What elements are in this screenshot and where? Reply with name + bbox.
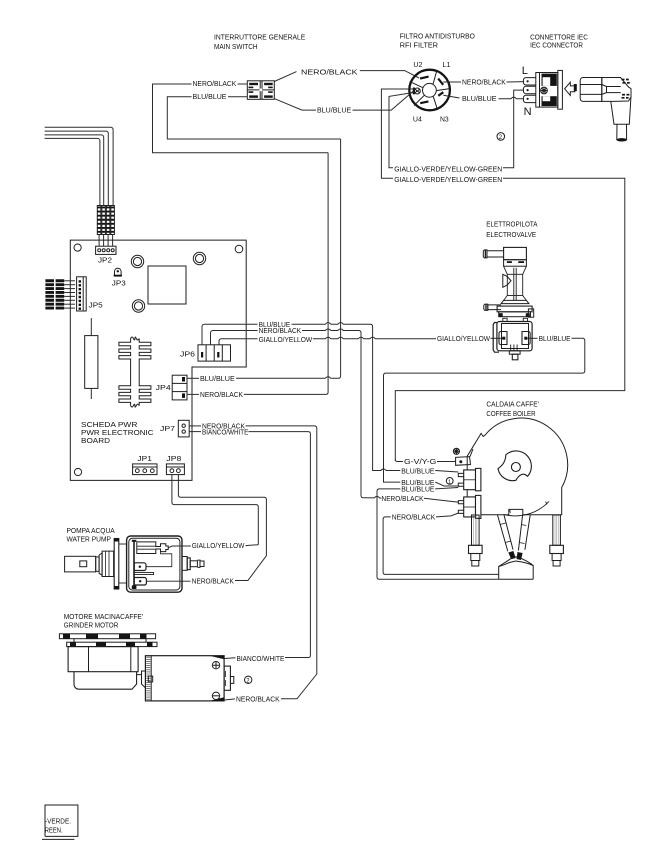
pump M1 left shaft bbox=[65, 539, 127, 590]
RFI filter spokes bbox=[410, 71, 450, 109]
wire NERO/BLACK grinder stub bbox=[225, 699, 236, 700]
svg-text:-VERDE.: -VERDE. bbox=[45, 818, 71, 826]
boiler B1 body bbox=[467, 418, 567, 516]
PCB via ring 1 bbox=[131, 255, 143, 267]
svg-text:GIALLO-VERDE/YELLOW-GREEN: GIALLO-VERDE/YELLOW-GREEN bbox=[394, 165, 502, 173]
boiler inner cam bbox=[498, 451, 531, 481]
wire BLU/BLUE switch left lead bbox=[228, 96, 247, 98]
wire bundle 4 wires from left edge to JP2 bbox=[45, 127, 114, 205]
svg-text:NERO/BLACK: NERO/BLACK bbox=[192, 578, 234, 586]
arrow pointing to IEC inlet bbox=[565, 82, 575, 95]
wire GIALLO/YELLOW pump stubs bbox=[168, 545, 258, 548]
PCB mounting hole top-right bbox=[235, 245, 243, 253]
electrovalve EV1 bbox=[483, 247, 533, 359]
JP5 wires to connector bbox=[64, 281, 75, 308]
IC U2 big square bbox=[148, 266, 186, 304]
wire BLU/BLUE boiler1 right stub bbox=[435, 471, 458, 473]
wire BLU/BLUE from switch down to PCB net (left route) bbox=[167, 97, 340, 139]
svg-text:PWR ELECTRONIC: PWR ELECTRONIC bbox=[81, 429, 154, 437]
PCB via ring 2 bbox=[193, 252, 205, 264]
wire NERO/BLACK JP6 to boiler (via label) bbox=[211, 329, 382, 498]
pump coil core bar bbox=[133, 541, 135, 589]
electrovalve base flange bbox=[501, 300, 529, 303]
boiler group head mound bbox=[499, 557, 534, 580]
svg-text:N3: N3 bbox=[440, 116, 449, 124]
note symbol circled-2 grinder bbox=[245, 676, 252, 684]
grinder minus symbol bbox=[212, 692, 219, 699]
wire ground GIALLO-VERDE line2: filter hub to boiler route bbox=[381, 89, 624, 461]
title RFI filter bbox=[400, 32, 476, 49]
svg-text:N: N bbox=[524, 106, 532, 118]
electrovalve collar bbox=[497, 306, 532, 312]
pump mid thin bar bbox=[134, 573, 153, 575]
wire BIANCO/WHITE JP7 down to grinder bbox=[189, 432, 310, 658]
grinder plus symbol bbox=[212, 662, 219, 669]
title electrovalve bbox=[486, 220, 537, 238]
JP5 crimp stack bbox=[45, 279, 64, 309]
wire NERO/BLACK boiler1 right stub bbox=[424, 498, 459, 502]
boiler heater terminal block lower bbox=[458, 495, 481, 518]
svg-text:BLU/BLUE: BLU/BLUE bbox=[200, 375, 235, 383]
svg-text:JP2: JP2 bbox=[98, 256, 112, 264]
wire NERO/BLACK filter to IEC L pin bbox=[443, 81, 524, 83]
connector JP5 bbox=[77, 277, 87, 311]
wire BLU/BLUE boiler3 left route down to group head bbox=[377, 488, 499, 580]
capacitor C1 tall rect bbox=[85, 318, 98, 399]
svg-text:JP3: JP3 bbox=[112, 280, 126, 288]
electrovalve coil top tabs bbox=[503, 318, 507, 321]
svg-text:INTERRUTTORE GENERALE: INTERRUTTORE GENERALE bbox=[214, 34, 306, 42]
svg-text:COFFEE BOILER: COFFEE BOILER bbox=[486, 410, 535, 418]
wire NERO/BLACK switch left lead bbox=[238, 83, 248, 85]
title grinder motor bbox=[64, 613, 143, 630]
pump inner connector top (giallo terminal) bbox=[137, 542, 168, 554]
wire BLU/BLUE switch to filter lower bbox=[274, 91, 413, 110]
boiler right stud bolt bbox=[550, 515, 564, 566]
svg-text:BLU/BLUE: BLU/BLUE bbox=[401, 467, 434, 475]
svg-text:GIALLO-VERDE/YELLOW-GREEN: GIALLO-VERDE/YELLOW-GREEN bbox=[394, 176, 502, 184]
svg-text:JP4: JP4 bbox=[156, 384, 171, 392]
wire NERO/BLACK JP7 down to grinder bbox=[189, 426, 317, 699]
svg-text:BIANCO/WHITE: BIANCO/WHITE bbox=[237, 655, 285, 663]
svg-text:BLU/BLUE: BLU/BLUE bbox=[193, 93, 227, 101]
boiler heater terminal block upper bbox=[458, 468, 481, 490]
electrovalve stem bbox=[514, 268, 516, 301]
wire GIALLO/YELLOW JP6 to electrovalve (via label) bbox=[219, 337, 436, 345]
svg-text:BLU/BLUE: BLU/BLUE bbox=[462, 95, 497, 103]
wire NERO/BLACK from switch down to PCB net (left route) bbox=[153, 84, 329, 153]
electrovalve terminal right bbox=[522, 332, 530, 345]
switch S1 main switch body bbox=[247, 81, 274, 100]
note symbol circled-1 boiler bbox=[446, 478, 453, 486]
svg-text:BLU/BLUE: BLU/BLUE bbox=[317, 107, 351, 115]
electrovalve bottom tab and pin bbox=[509, 351, 520, 354]
PCB mounting hole top-left bbox=[74, 244, 81, 251]
pump internal wire bbox=[146, 552, 172, 567]
svg-text:L1: L1 bbox=[443, 61, 451, 69]
title water pump bbox=[67, 527, 115, 543]
svg-text:MOTORE MACINACAFFE': MOTORE MACINACAFFE' bbox=[64, 613, 143, 621]
connector JP1 bbox=[133, 464, 157, 475]
svg-text:NERO/BLACK: NERO/BLACK bbox=[382, 495, 424, 503]
wire ground GIALLO-VERDE line1: filter tab to label to IEC earth bbox=[389, 90, 524, 168]
PCB mounting hole bottom-left bbox=[74, 468, 81, 475]
electrovalve coil housing bbox=[497, 322, 532, 351]
electrovalve mid nozzle bbox=[488, 305, 501, 310]
pump spade terminal low bbox=[134, 578, 146, 586]
svg-text:CALDAIA CAFFE': CALDAIA CAFFE' bbox=[486, 401, 539, 409]
wire G-V/Y-G label to boiler terminal bbox=[395, 459, 455, 461]
wire JP8 pin2 to pump NERO/BLACK bbox=[178, 475, 266, 581]
svg-text:NERO/BLACK: NERO/BLACK bbox=[200, 391, 243, 399]
svg-text:BOARD: BOARD bbox=[81, 437, 110, 445]
PCB board outline bbox=[70, 240, 246, 480]
svg-text:GIALLO/YELLOW: GIALLO/YELLOW bbox=[192, 542, 245, 550]
wire BLU/BLUE JP6 to boiler (via label) bbox=[202, 323, 400, 471]
title main switch bbox=[214, 34, 306, 51]
svg-text:RFI FILTER: RFI FILTER bbox=[400, 42, 438, 50]
svg-text:U2: U2 bbox=[413, 61, 422, 69]
svg-text:NERO/BLACK: NERO/BLACK bbox=[301, 68, 358, 76]
connector JP8 bbox=[166, 464, 184, 475]
svg-text:NERO/BLACK: NERO/BLACK bbox=[462, 79, 506, 87]
electrovalve left tag bbox=[503, 274, 511, 287]
svg-text:JP7: JP7 bbox=[160, 425, 175, 433]
boiler ground terminal G-V bbox=[456, 449, 473, 465]
RFI filter ground screw tab bbox=[413, 88, 421, 95]
wire JP8 pin1 to pump GIALLO/YELLOW bbox=[172, 475, 258, 545]
RFI filter hub bbox=[423, 83, 437, 97]
boiler right pipe bbox=[517, 515, 531, 560]
legend box bottom-left bbox=[42, 805, 78, 839]
power plug P1 body bbox=[574, 78, 631, 142]
pump spade terminal mid bbox=[134, 563, 146, 571]
title IEC connector bbox=[530, 34, 588, 50]
svg-text:L: L bbox=[522, 65, 528, 77]
electrovalve bottom ticks bbox=[511, 345, 517, 351]
svg-text:NERO/BLACK: NERO/BLACK bbox=[392, 513, 436, 521]
grinder motor body bbox=[145, 656, 233, 701]
svg-text:GIALLO/YELLOW: GIALLO/YELLOW bbox=[437, 335, 490, 343]
svg-text:NERO/BLACK: NERO/BLACK bbox=[193, 80, 237, 88]
PCB via ring 3 bbox=[132, 300, 144, 312]
boiler left stud bolt bbox=[469, 515, 483, 566]
pump body bbox=[127, 536, 191, 592]
electrovalve cap band bbox=[504, 260, 527, 267]
grinder G1 top plates bbox=[59, 634, 157, 647]
svg-text:SCHEDA PWR: SCHEDA PWR bbox=[81, 421, 137, 429]
wire BLU/BLUE filter to IEC N pin bbox=[443, 95, 524, 98]
connector JP4 bbox=[172, 375, 187, 400]
wire BLU/BLUE boiler2 right stub bbox=[435, 482, 458, 486]
boiler left pipe bbox=[498, 515, 516, 559]
svg-text:BIANCO/WHITE: BIANCO/WHITE bbox=[202, 428, 249, 436]
svg-text:ELECTROVALVE: ELECTROVALVE bbox=[486, 231, 536, 239]
electrovalve top nozzle bbox=[487, 251, 504, 257]
connector JP6 bbox=[198, 345, 231, 361]
connector JP2 bbox=[96, 246, 116, 254]
electrovalve top cap bbox=[504, 247, 527, 259]
pump mounting plate bbox=[114, 539, 119, 590]
pump outlet nozzle bbox=[182, 557, 204, 571]
svg-text:1: 1 bbox=[448, 479, 451, 485]
wire NERO/BLACK boiler2 left route down to group head bbox=[383, 513, 499, 575]
IEC connector body bbox=[536, 70, 563, 109]
svg-text:JP1: JP1 bbox=[137, 455, 152, 463]
IEC connector J1 pins bbox=[523, 78, 535, 103]
JP3 buzzer icon bbox=[114, 268, 122, 276]
svg-text:BLU/BLUE: BLU/BLUE bbox=[539, 335, 571, 343]
svg-text:FILTRO ANTIDISTURBO: FILTRO ANTIDISTURBO bbox=[400, 32, 476, 40]
svg-text:JP5: JP5 bbox=[89, 302, 103, 310]
wire JP2 pin leads bbox=[99, 235, 113, 247]
electrovalve upper body cylinder bbox=[504, 266, 527, 300]
wire BLU/BLUE JP4 up-route to switch bbox=[187, 139, 341, 378]
svg-text:G-V/Y-G: G-V/Y-G bbox=[404, 458, 436, 466]
svg-text:GRINDER MOTOR: GRINDER MOTOR bbox=[64, 622, 119, 630]
svg-text:MAIN SWITCH: MAIN SWITCH bbox=[214, 43, 258, 51]
boiler ground screw symbol bbox=[453, 448, 459, 454]
svg-text:BLU/BLUE: BLU/BLUE bbox=[401, 485, 434, 493]
svg-text:ELETTROPILOTA: ELETTROPILOTA bbox=[486, 220, 537, 228]
electrovalve terminal left bbox=[499, 332, 507, 345]
svg-text:REEN.: REEN. bbox=[45, 826, 63, 834]
wire GIALLO/YELLOW electrovalve right stub bbox=[491, 337, 504, 339]
heatsink fins bbox=[119, 337, 151, 407]
grinder body bbox=[68, 647, 145, 690]
wire BLU/BLUE electrovalve to boiler BLU2 bbox=[384, 338, 585, 482]
svg-text:WATER PUMP: WATER PUMP bbox=[67, 535, 112, 543]
svg-text:GIALLO/YELLOW: GIALLO/YELLOW bbox=[259, 336, 313, 344]
wire NERO/BLACK switch to filter upper bbox=[274, 71, 419, 82]
wire NERO/BLACK JP4 up-route to switch bbox=[187, 153, 328, 395]
board title SCHEDA PWR bbox=[81, 421, 154, 445]
connector JP7 bbox=[178, 420, 189, 437]
electrovalve left bracket bbox=[493, 323, 499, 353]
svg-text:NERO/BLACK: NERO/BLACK bbox=[259, 327, 302, 335]
svg-text:POMPA ACQUA: POMPA ACQUA bbox=[67, 527, 115, 535]
RFI filter sector terminal bars bbox=[420, 77, 443, 104]
RFI filter U1 outer ring bbox=[409, 70, 450, 111]
note symbol circled-2 near IEC bbox=[497, 133, 505, 141]
wire BIANCO/WHITE grinder stub bbox=[225, 657, 236, 660]
title coffee boiler bbox=[486, 401, 539, 418]
svg-text:IEC CONNECTOR: IEC CONNECTOR bbox=[530, 41, 583, 49]
svg-text:JP8: JP8 bbox=[166, 455, 181, 463]
JP2 crimp terminal stack bbox=[97, 206, 114, 235]
svg-text:JP6: JP6 bbox=[180, 351, 195, 359]
svg-text:U4: U4 bbox=[413, 116, 422, 124]
svg-text:NERO/BLACK: NERO/BLACK bbox=[236, 696, 280, 704]
